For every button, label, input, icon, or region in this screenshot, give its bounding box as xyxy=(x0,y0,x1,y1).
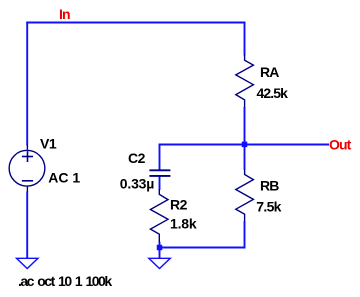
svg-text:RA: RA xyxy=(260,64,279,80)
svg-text:RB: RB xyxy=(260,178,279,194)
svg-text:42.5k: 42.5k xyxy=(257,85,289,101)
svg-text:0.33µ: 0.33µ xyxy=(120,175,154,191)
svg-text:Out: Out xyxy=(329,137,352,153)
svg-text:7.5k: 7.5k xyxy=(256,199,281,215)
svg-text:1.8k: 1.8k xyxy=(170,216,197,232)
svg-text:AC 1: AC 1 xyxy=(48,170,80,186)
svg-text:.ac oct 10 1 100k: .ac oct 10 1 100k xyxy=(18,273,112,289)
svg-text:R2: R2 xyxy=(170,197,188,213)
svg-text:V1: V1 xyxy=(40,136,57,152)
svg-text:C2: C2 xyxy=(128,150,146,166)
svg-text:In: In xyxy=(59,6,70,22)
